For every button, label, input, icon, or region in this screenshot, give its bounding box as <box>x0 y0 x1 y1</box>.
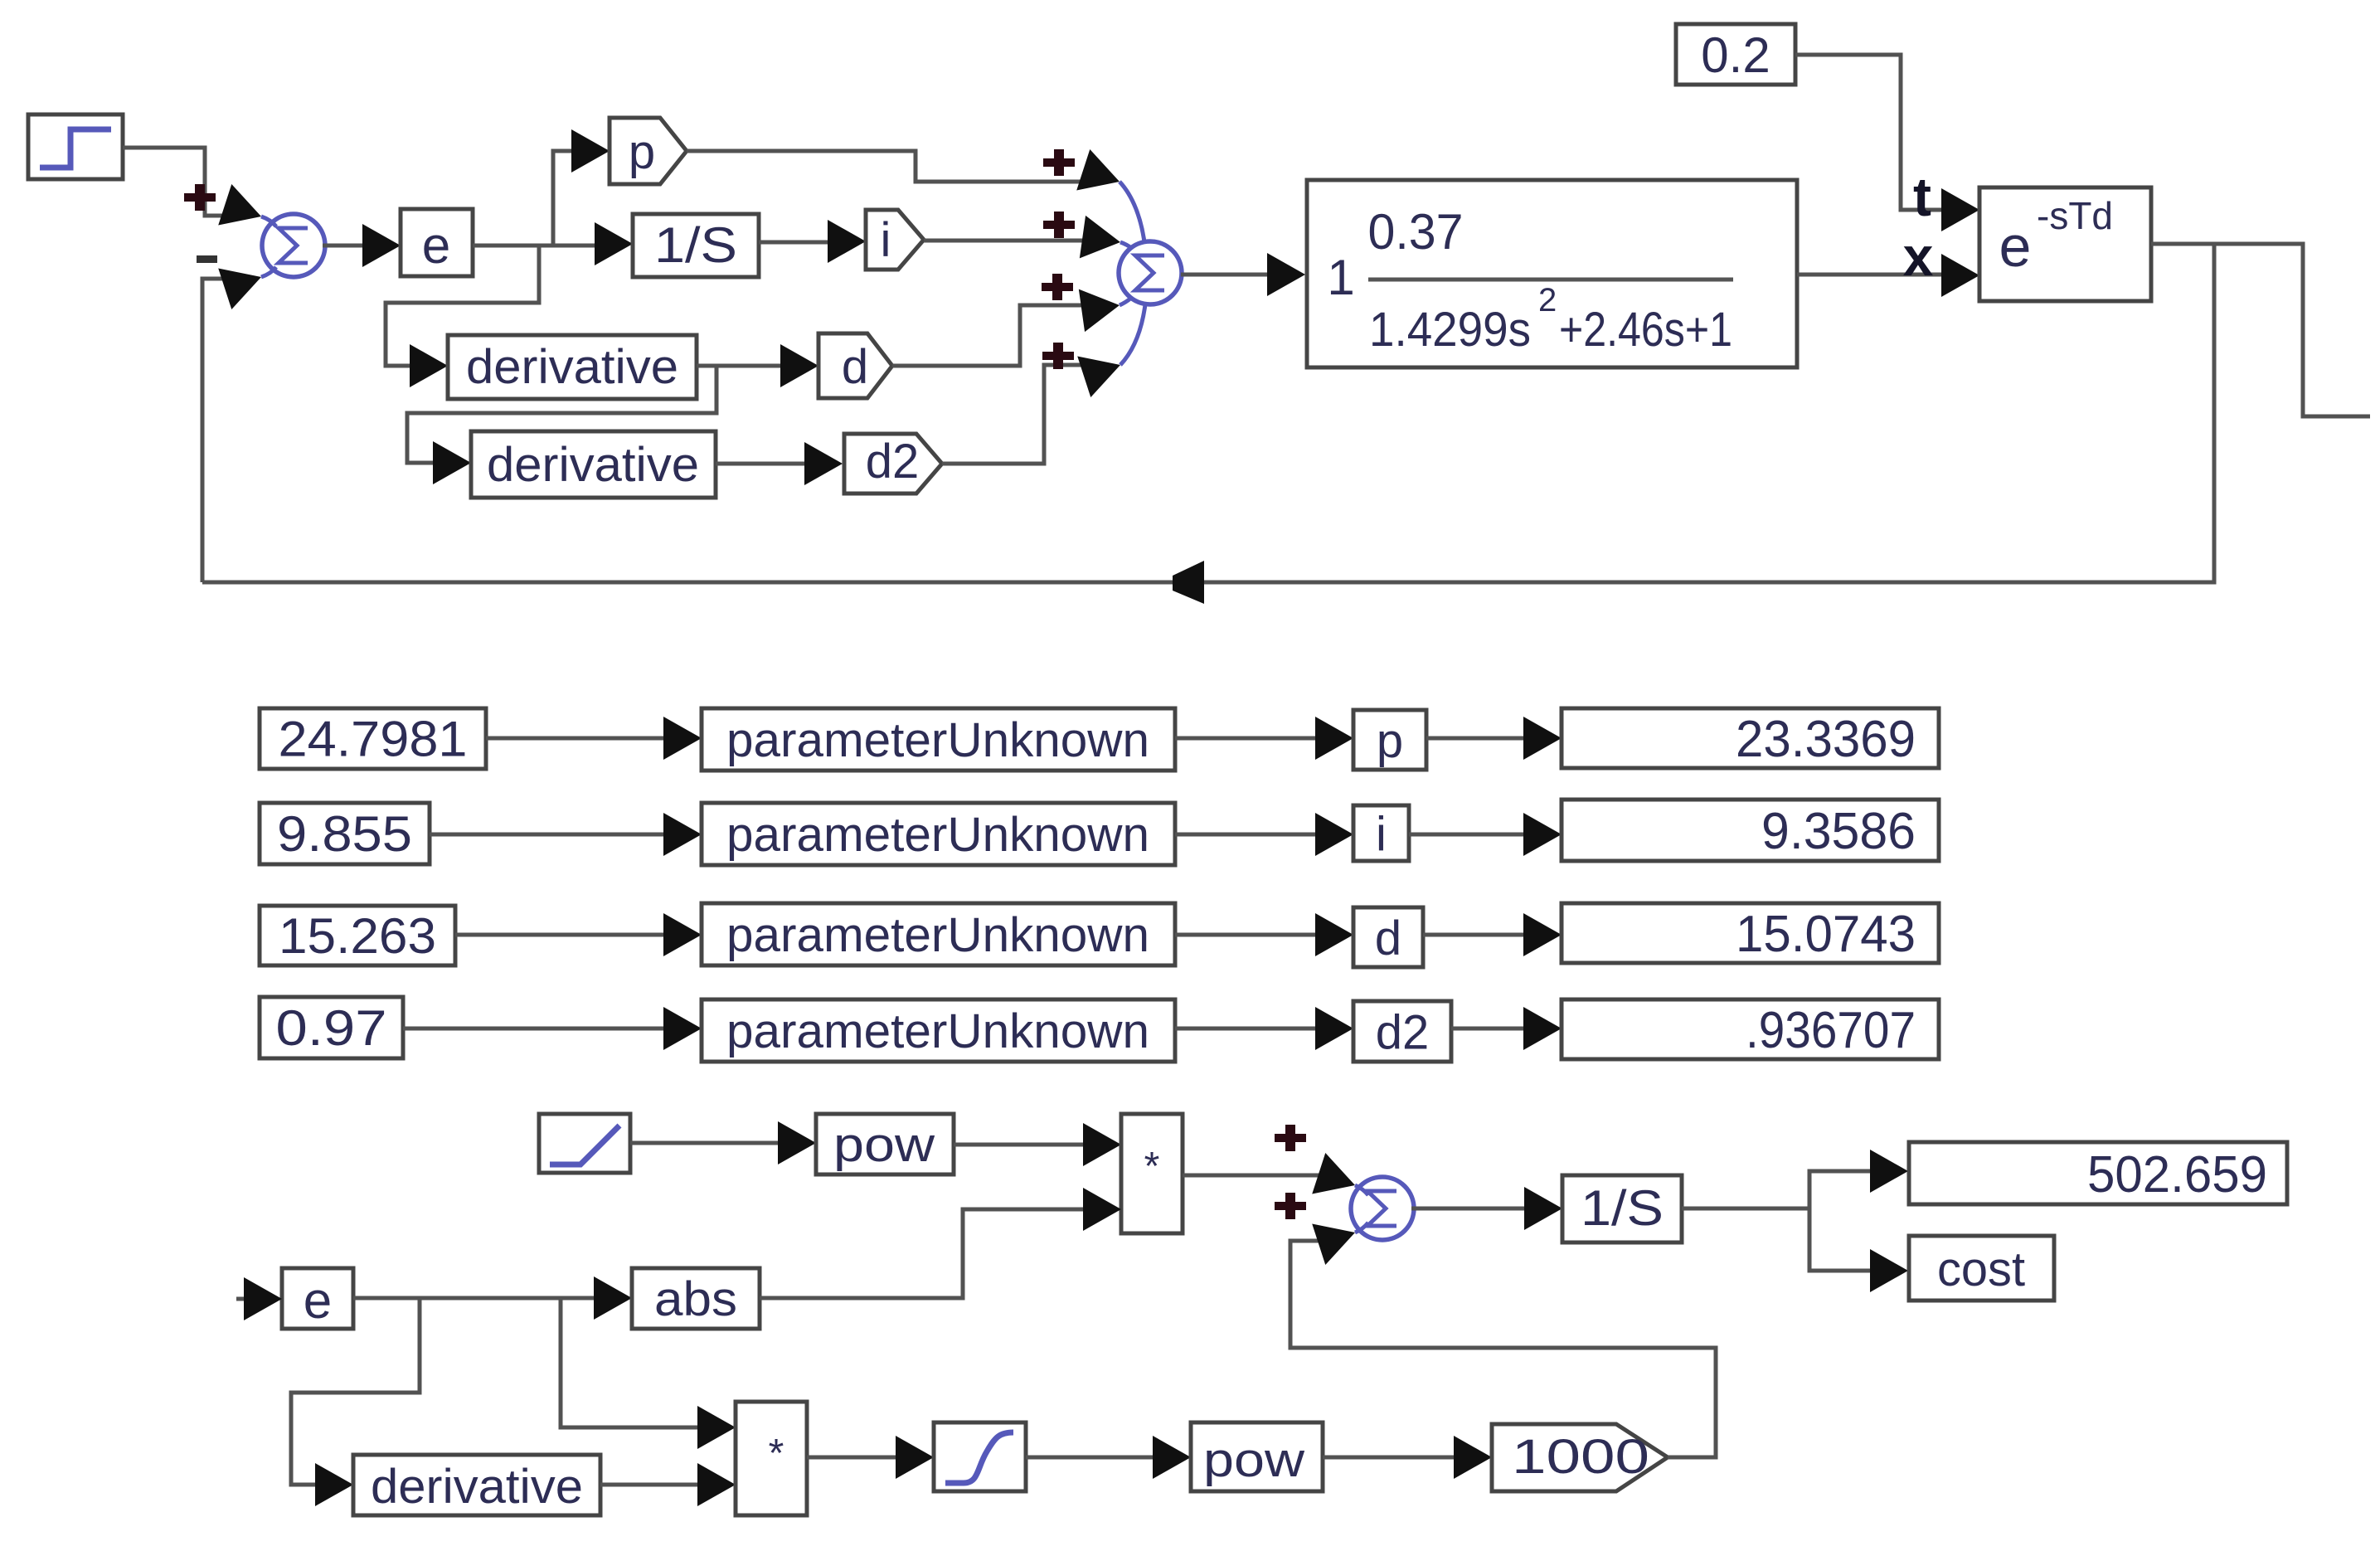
wire branch e2 down to derivative3 <box>291 1298 420 1506</box>
block pow1 <box>816 1114 954 1174</box>
svg-text:*: * <box>769 1432 784 1476</box>
wire TF to delay x input <box>1797 254 1979 297</box>
svg-text:9.3586: 9.3586 <box>1761 803 1916 860</box>
block constant 9.855 <box>260 803 430 864</box>
wire mul1 to sum3 input1 <box>1183 1153 1362 1206</box>
label x <box>1903 226 1934 287</box>
svg-text:2: 2 <box>1538 282 1557 318</box>
block 1/S2 integrator <box>1562 1175 1682 1242</box>
block multiplier mul1 <box>1121 1114 1183 1233</box>
svg-text:1000: 1000 <box>1512 1430 1649 1484</box>
svg-text:pow: pow <box>833 1118 935 1172</box>
svg-text:*: * <box>1144 1145 1160 1189</box>
wire p tag to sum2 input1 <box>687 149 1126 202</box>
svg-text:1: 1 <box>1327 250 1354 305</box>
block tag d2 row4 <box>1353 1001 1451 1062</box>
block derivative3 <box>353 1455 600 1515</box>
svg-text:502.659: 502.659 <box>2087 1146 2267 1203</box>
block parameterUnknown row4 <box>702 999 1175 1062</box>
wire parameterUnknown row1 to tag <box>1175 717 1353 760</box>
label plus sum1 <box>184 184 216 211</box>
svg-text:9.855: 9.855 <box>277 806 412 862</box>
svg-text:0.37: 0.37 <box>1368 204 1464 260</box>
wire constant row2 to parameterUnknown <box>430 813 702 856</box>
wire sum1 to e block <box>323 224 401 267</box>
svg-text:d2: d2 <box>1376 1006 1430 1060</box>
block e (error) <box>401 209 473 276</box>
display .936707 <box>1562 999 1939 1059</box>
display 9.3586 <box>1562 800 1939 861</box>
svg-text:23.3369: 23.3369 <box>1736 711 1916 768</box>
svg-text:i: i <box>1376 808 1387 862</box>
svg-text:parameterUnknown: parameterUnknown <box>726 908 1149 962</box>
label plus sum3 input1 <box>1275 1125 1306 1151</box>
wire pow2 to 1000 tag <box>1323 1436 1492 1479</box>
wire abs to mul1 input2 <box>760 1188 1121 1298</box>
svg-text:parameterUnknown: parameterUnknown <box>726 1004 1149 1058</box>
wire sum2 to transfer function <box>1181 253 1305 296</box>
wire d2 tag to sum2 input4 <box>942 344 1127 464</box>
wire step to sum1 plus input <box>123 148 268 237</box>
block derivative2 <box>471 431 716 498</box>
block tag i row2 <box>1353 805 1409 862</box>
block saturation <box>934 1422 1026 1491</box>
svg-text:e: e <box>304 1272 332 1330</box>
wire parameterUnknown row2 to tag <box>1175 813 1353 856</box>
svg-text:1/S: 1/S <box>1581 1180 1664 1236</box>
svg-text:p: p <box>629 125 655 179</box>
svg-text:15.263: 15.263 <box>279 908 436 964</box>
wire 1000 tag to sum3 input2 <box>1290 1212 1716 1457</box>
wire derivative2 to d2 tag <box>716 442 843 485</box>
svg-text:derivative: derivative <box>487 438 699 492</box>
block tag d row3 <box>1353 907 1423 967</box>
label t <box>1913 166 1931 227</box>
svg-text:0.2: 0.2 <box>1701 27 1770 83</box>
goto tag d2 <box>844 434 942 494</box>
display 15.0743 <box>1562 903 1939 963</box>
wire ramp to pow1 <box>630 1121 816 1164</box>
svg-text:d2: d2 <box>866 435 920 489</box>
wire stub into e2 <box>236 1277 282 1320</box>
svg-text:15.0743: 15.0743 <box>1736 906 1916 963</box>
wire branch e up to p tag <box>553 129 610 246</box>
wire branch e2 to mul2 input1 <box>561 1298 736 1449</box>
svg-text:24.7981: 24.7981 <box>279 712 468 767</box>
wire sum3 to 1/S2 <box>1411 1187 1562 1230</box>
label minus sum1 <box>197 255 217 263</box>
svg-text:i: i <box>881 213 891 267</box>
label plus sum2 input4 <box>1042 343 1074 369</box>
wire feedback from delay output <box>202 244 2214 582</box>
svg-text:1.4299s: 1.4299s <box>1369 303 1531 357</box>
wire constant row3 to parameterUnknown <box>455 913 702 956</box>
svg-text:pow: pow <box>1203 1433 1305 1487</box>
svg-text:e: e <box>1999 214 2032 279</box>
wire e2 to abs <box>353 1276 632 1320</box>
block e2 <box>282 1268 353 1330</box>
wire branch derivative1 out to derivative2 input <box>407 366 716 484</box>
svg-text:derivative: derivative <box>466 340 678 394</box>
block multiplier mul2 <box>736 1402 807 1515</box>
wire parameterUnknown row4 to tag <box>1175 1007 1353 1050</box>
goto tag i <box>866 210 924 270</box>
wire d tag to sum2 input3 <box>892 284 1123 366</box>
block parameterUnknown row3 <box>702 903 1175 965</box>
svg-text:t: t <box>1913 166 1931 227</box>
label plus sum2 input2 <box>1043 211 1075 238</box>
block parameterUnknown row1 <box>702 708 1175 771</box>
block constant 0.2 <box>1676 24 1795 85</box>
step source block <box>28 114 123 179</box>
svg-text:abs: abs <box>654 1272 737 1326</box>
block constant 15.263 <box>260 906 455 965</box>
summing junction sum1 <box>261 214 325 277</box>
goto tag 1000 <box>1492 1424 1668 1491</box>
goto tag p <box>610 118 687 184</box>
wire parameterUnknown row3 to tag <box>1175 913 1353 956</box>
summing junction sum3 <box>1351 1177 1414 1240</box>
block constant 24.7981 <box>260 708 486 769</box>
summing junction sum2 with claws <box>1119 182 1182 365</box>
wire saturation to pow2 <box>1026 1436 1191 1479</box>
block time delay e-sTd <box>1979 187 2151 301</box>
svg-text:d: d <box>842 340 868 394</box>
wire 1/S2 split to displays <box>1682 1150 1908 1292</box>
goto tag d <box>818 333 892 398</box>
wire mul2 to saturation <box>807 1436 934 1479</box>
label plus sum2 input1 <box>1043 149 1075 176</box>
svg-text:1/S: 1/S <box>654 217 737 273</box>
svg-text:x: x <box>1903 226 1934 287</box>
display 23.3369 <box>1562 708 1939 768</box>
block transfer function <box>1307 180 1797 367</box>
svg-text:-sTd: -sTd <box>2037 194 2113 237</box>
svg-text:cost: cost <box>1937 1242 2025 1296</box>
wire i tag to sum2 input2 <box>924 216 1124 264</box>
wire 1/S to i tag <box>759 220 866 263</box>
wire constant row4 to parameterUnknown <box>403 1007 702 1050</box>
wire tag row3 to display <box>1423 913 1562 956</box>
wire branch e down to derivative1 <box>386 246 539 387</box>
wire feedback into sum1 minus input <box>202 256 268 582</box>
svg-text:+2.46s+1: +2.46s+1 <box>1559 303 1732 357</box>
svg-text:e: e <box>422 217 450 275</box>
svg-text:.936707: .936707 <box>1746 1002 1916 1059</box>
block pow2 <box>1191 1422 1323 1491</box>
wire derivative1 to d tag <box>697 344 818 387</box>
wire constant row1 to parameterUnknown <box>486 717 702 760</box>
block parameterUnknown row2 <box>702 803 1175 865</box>
svg-text:derivative: derivative <box>371 1460 583 1514</box>
svg-text:d: d <box>1375 912 1401 965</box>
svg-text:parameterUnknown: parameterUnknown <box>726 808 1149 862</box>
wire e to 1/S with junctions <box>473 222 633 265</box>
display 502.659 <box>1909 1142 2287 1204</box>
wire delay output to right edge <box>2151 244 2370 416</box>
label plus sum3 input2 <box>1275 1193 1306 1219</box>
wire 0.2 to delay t input <box>1795 55 1979 231</box>
block 1/S integrator <box>633 214 759 277</box>
svg-text:0.97: 0.97 <box>276 1000 387 1056</box>
svg-text:parameterUnknown: parameterUnknown <box>726 713 1149 767</box>
block constant 0.97 <box>260 997 403 1058</box>
block cost <box>1909 1236 2054 1301</box>
block abs <box>632 1268 760 1329</box>
block derivative1 <box>448 335 697 399</box>
ramp source block <box>539 1114 630 1173</box>
block tag p row1 <box>1353 710 1426 770</box>
wire tag row2 to display <box>1409 813 1562 856</box>
wire tag row4 to display <box>1451 1007 1562 1050</box>
svg-text:p: p <box>1377 714 1403 768</box>
feedback mid arrowhead <box>1173 561 1204 604</box>
wire tag row1 to display <box>1426 717 1562 760</box>
label plus sum2 input3 <box>1042 274 1073 300</box>
wire pow1 to mul1 <box>954 1123 1121 1166</box>
wire derivative3 to mul2 input2 <box>600 1463 736 1506</box>
